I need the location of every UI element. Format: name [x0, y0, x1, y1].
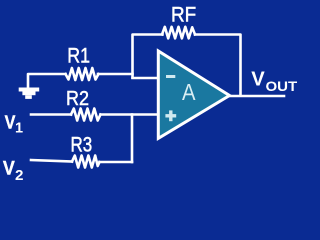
resistor R3 — [72, 156, 100, 168]
svg-text:A: A — [182, 79, 196, 105]
svg-text:RF: RF — [171, 2, 196, 26]
wire R3 to junction — [100, 161, 133, 164]
wire RF to output node, feedback right drop — [195, 35, 241, 96]
svg-text:OUT: OUT — [266, 79, 298, 94]
wire V1 to R2 — [31, 113, 71, 116]
resistor RF — [162, 27, 195, 39]
svg-text:V: V — [251, 67, 265, 90]
op-amp minus input symbol — [166, 75, 175, 78]
resistor R1 — [66, 68, 99, 80]
wire R1 to inverting node — [98, 73, 133, 76]
svg-text:V: V — [3, 159, 15, 180]
wire junction R2-R3 vertical — [131, 115, 134, 163]
ground — [19, 88, 40, 99]
wire V2 to R3 — [31, 160, 72, 162]
svg-text:2: 2 — [15, 167, 23, 184]
svg-text:R1: R1 — [67, 44, 90, 68]
wire feedback left drop — [133, 35, 163, 78]
wire R2 to op-amp plus input — [101, 113, 159, 116]
svg-text:1: 1 — [15, 121, 23, 137]
wire ground to R1 — [28, 74, 66, 87]
op-amp plus input symbol — [165, 110, 176, 121]
svg-text:R2: R2 — [66, 87, 89, 110]
resistor R2 — [71, 109, 101, 121]
svg-text:R3: R3 — [71, 131, 93, 156]
wire output — [230, 95, 284, 98]
wire inverting node to op-amp minus input — [133, 77, 159, 80]
op-amp A — [158, 51, 229, 138]
